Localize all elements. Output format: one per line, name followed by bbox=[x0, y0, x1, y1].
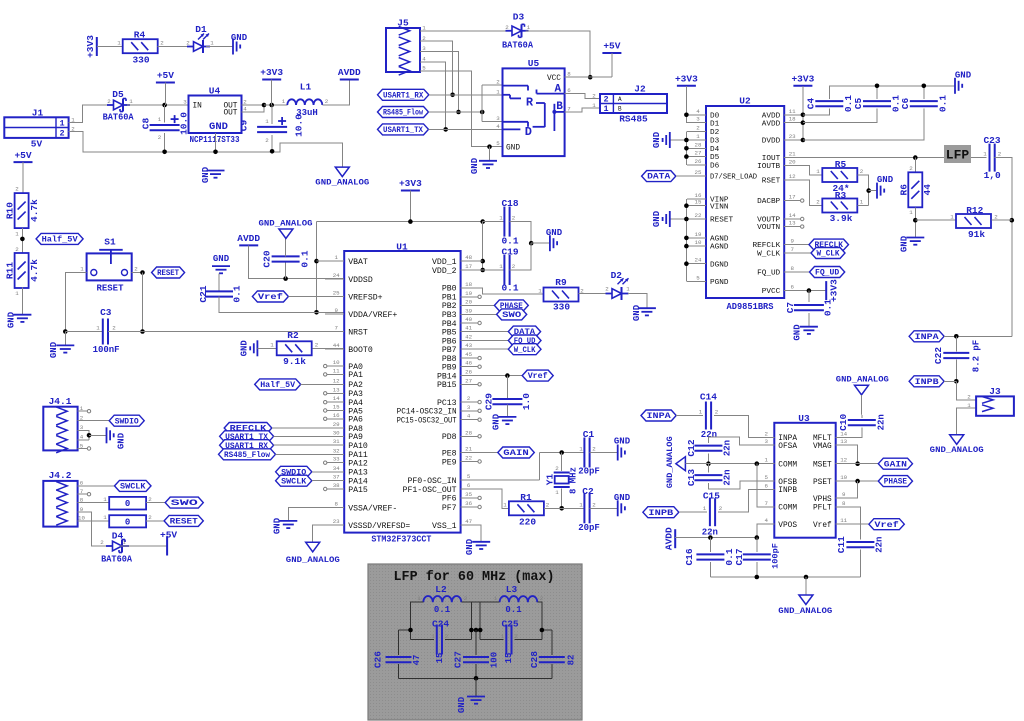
svg-text:1: 1 bbox=[499, 214, 503, 221]
svg-text:GND: GND bbox=[201, 166, 211, 183]
svg-text:C11: C11 bbox=[836, 536, 847, 553]
svg-text:3: 3 bbox=[183, 98, 187, 105]
svg-text:2: 2 bbox=[860, 168, 864, 175]
svg-text:C24: C24 bbox=[432, 618, 449, 629]
svg-text:3: 3 bbox=[765, 438, 769, 445]
svg-text:R2: R2 bbox=[287, 330, 299, 341]
svg-text:R12: R12 bbox=[966, 205, 983, 216]
svg-text:Vref: Vref bbox=[813, 522, 832, 530]
svg-text:PB0: PB0 bbox=[442, 285, 457, 294]
svg-text:PHASE: PHASE bbox=[884, 477, 907, 487]
svg-text:DVDD: DVDD bbox=[762, 138, 781, 146]
svg-text:2: 2 bbox=[243, 98, 247, 105]
svg-text:15: 15 bbox=[435, 653, 445, 664]
svg-text:43: 43 bbox=[465, 342, 472, 349]
svg-text:C1: C1 bbox=[583, 429, 595, 440]
svg-text:0.1: 0.1 bbox=[501, 283, 518, 294]
svg-text:2: 2 bbox=[816, 198, 820, 205]
svg-text:GND_ANALOG: GND_ANALOG bbox=[778, 606, 832, 616]
svg-text:22: 22 bbox=[695, 212, 702, 219]
svg-text:SWO: SWO bbox=[502, 310, 521, 320]
svg-text:16: 16 bbox=[333, 412, 340, 419]
svg-text:GND_ANALOG: GND_ANALOG bbox=[836, 375, 889, 385]
svg-text:20: 20 bbox=[789, 159, 796, 166]
svg-text:2: 2 bbox=[719, 505, 723, 512]
svg-text:PF1-OSC_OUT: PF1-OSC_OUT bbox=[403, 486, 457, 495]
svg-text:R5: R5 bbox=[835, 159, 847, 170]
svg-text:47: 47 bbox=[465, 518, 472, 525]
svg-text:C15: C15 bbox=[703, 490, 720, 501]
svg-text:25: 25 bbox=[695, 169, 702, 176]
svg-text:C6: C6 bbox=[900, 98, 911, 110]
svg-text:GND: GND bbox=[614, 493, 631, 503]
svg-text:31: 31 bbox=[333, 438, 340, 445]
svg-text:C10: C10 bbox=[838, 413, 849, 430]
svg-text:2: 2 bbox=[998, 150, 1002, 157]
svg-text:1: 1 bbox=[765, 457, 769, 464]
svg-text:1: 1 bbox=[15, 230, 19, 237]
svg-text:PGND: PGND bbox=[710, 279, 729, 287]
svg-text:USART1_TX: USART1_TX bbox=[383, 125, 424, 135]
svg-text:PSET: PSET bbox=[813, 479, 832, 487]
svg-text:47: 47 bbox=[412, 655, 422, 666]
svg-text:GND: GND bbox=[652, 131, 662, 148]
svg-text:37: 37 bbox=[333, 474, 340, 481]
svg-text:5: 5 bbox=[696, 274, 700, 281]
svg-text:PA2: PA2 bbox=[348, 381, 363, 390]
svg-text:PA15: PA15 bbox=[348, 486, 368, 495]
svg-text:GAIN: GAIN bbox=[884, 459, 907, 469]
svg-text:20pF: 20pF bbox=[578, 523, 600, 533]
svg-text:D1: D1 bbox=[195, 24, 207, 35]
svg-text:1: 1 bbox=[592, 102, 596, 109]
svg-text:9: 9 bbox=[842, 491, 846, 498]
svg-text:6: 6 bbox=[567, 87, 571, 94]
svg-text:GND: GND bbox=[49, 341, 59, 358]
svg-text:VSSA/VREF-: VSSA/VREF- bbox=[348, 503, 397, 513]
svg-text:RS485: RS485 bbox=[619, 114, 648, 125]
svg-text:+5V: +5V bbox=[603, 41, 620, 52]
svg-text:1: 1 bbox=[527, 24, 531, 31]
svg-text:7: 7 bbox=[765, 500, 769, 507]
svg-text:C20: C20 bbox=[262, 250, 273, 267]
svg-text:2: 2 bbox=[15, 185, 19, 192]
svg-text:AVDD: AVDD bbox=[762, 112, 781, 120]
svg-text:2: 2 bbox=[325, 98, 329, 105]
svg-text:1: 1 bbox=[117, 39, 121, 46]
svg-text:VSS_1: VSS_1 bbox=[432, 522, 457, 531]
svg-text:1: 1 bbox=[538, 287, 542, 294]
svg-text:1,0: 1,0 bbox=[984, 170, 1001, 181]
svg-text:11: 11 bbox=[840, 517, 847, 524]
svg-text:22n: 22n bbox=[875, 537, 885, 553]
svg-text:5: 5 bbox=[496, 140, 500, 147]
svg-text:9.1k: 9.1k bbox=[283, 356, 306, 367]
svg-text:6: 6 bbox=[467, 482, 471, 489]
svg-text:2: 2 bbox=[514, 633, 518, 640]
svg-text:A: A bbox=[618, 96, 622, 103]
svg-text:Vref: Vref bbox=[258, 292, 283, 302]
svg-text:2: 2 bbox=[148, 514, 152, 521]
svg-text:GND: GND bbox=[793, 324, 803, 341]
svg-text:C16: C16 bbox=[684, 548, 695, 565]
svg-text:GND: GND bbox=[116, 432, 126, 449]
svg-text:40: 40 bbox=[465, 316, 472, 323]
svg-text:U2: U2 bbox=[739, 96, 751, 107]
svg-text:21: 21 bbox=[789, 151, 796, 158]
svg-text:C5: C5 bbox=[853, 98, 864, 110]
svg-text:15: 15 bbox=[695, 199, 702, 206]
svg-text:C13: C13 bbox=[686, 469, 697, 486]
svg-text:13: 13 bbox=[840, 438, 847, 445]
svg-text:35: 35 bbox=[465, 491, 472, 498]
svg-text:2: 2 bbox=[445, 633, 449, 640]
svg-text:C3: C3 bbox=[100, 307, 112, 318]
svg-text:82: 82 bbox=[566, 655, 576, 666]
svg-text:PE9: PE9 bbox=[442, 458, 457, 467]
svg-text:DGND: DGND bbox=[710, 261, 729, 269]
svg-text:2: 2 bbox=[186, 39, 190, 46]
svg-text:NCP1117ST33: NCP1117ST33 bbox=[190, 135, 240, 145]
svg-text:+5V: +5V bbox=[160, 530, 177, 541]
svg-text:D: D bbox=[525, 125, 532, 139]
svg-text:26: 26 bbox=[695, 158, 702, 165]
svg-text:PFLT: PFLT bbox=[813, 505, 832, 513]
svg-text:1: 1 bbox=[96, 324, 100, 331]
svg-text:4.7k: 4.7k bbox=[29, 259, 40, 282]
svg-text:INPA: INPA bbox=[915, 332, 940, 342]
svg-text:VREFSD+: VREFSD+ bbox=[348, 293, 382, 302]
svg-text:BOOT0: BOOT0 bbox=[348, 346, 373, 355]
svg-text:COMM: COMM bbox=[778, 505, 797, 513]
svg-text:28: 28 bbox=[695, 141, 702, 148]
svg-text:Y1: Y1 bbox=[545, 474, 556, 486]
svg-text:1: 1 bbox=[282, 98, 286, 105]
svg-text:PB5: PB5 bbox=[442, 328, 457, 337]
svg-text:Vref: Vref bbox=[874, 520, 898, 530]
svg-text:18: 18 bbox=[789, 116, 796, 123]
svg-text:GND: GND bbox=[465, 538, 475, 555]
svg-text:GAIN: GAIN bbox=[503, 448, 529, 458]
svg-text:IOUT: IOUT bbox=[762, 155, 781, 163]
svg-text:VDDA/VREF+: VDDA/VREF+ bbox=[348, 310, 397, 320]
svg-text:C19: C19 bbox=[501, 247, 518, 258]
svg-text:2: 2 bbox=[605, 285, 609, 292]
svg-text:2: 2 bbox=[112, 324, 116, 331]
svg-text:GND: GND bbox=[506, 145, 520, 153]
svg-text:7: 7 bbox=[334, 325, 338, 332]
svg-text:J4.1: J4.1 bbox=[49, 396, 72, 407]
svg-text:10: 10 bbox=[695, 239, 702, 246]
svg-text:PB15: PB15 bbox=[437, 381, 457, 390]
svg-text:D7/SER_LOAD: D7/SER_LOAD bbox=[710, 174, 757, 182]
svg-text:18: 18 bbox=[465, 281, 472, 288]
svg-text:33: 33 bbox=[333, 456, 340, 463]
svg-text:+3V3: +3V3 bbox=[675, 74, 698, 85]
svg-text:REFCLK: REFCLK bbox=[753, 242, 781, 250]
svg-text:8: 8 bbox=[334, 501, 338, 508]
svg-text:W_CLK: W_CLK bbox=[514, 345, 536, 355]
svg-text:J4.2: J4.2 bbox=[49, 470, 72, 481]
svg-text:12: 12 bbox=[333, 377, 340, 384]
svg-text:7: 7 bbox=[567, 105, 571, 112]
svg-text:DATA: DATA bbox=[647, 172, 671, 182]
svg-text:OUT: OUT bbox=[223, 110, 237, 118]
svg-text:AVDD: AVDD bbox=[237, 233, 260, 244]
svg-text:41: 41 bbox=[465, 325, 472, 332]
svg-text:AGND: AGND bbox=[710, 244, 729, 252]
svg-text:3: 3 bbox=[696, 116, 700, 123]
svg-text:9: 9 bbox=[790, 238, 794, 245]
svg-text:C25: C25 bbox=[502, 618, 519, 629]
svg-text:6: 6 bbox=[790, 284, 794, 291]
svg-text:1: 1 bbox=[103, 514, 107, 521]
svg-text:26: 26 bbox=[465, 369, 472, 376]
svg-text:2: 2 bbox=[592, 92, 596, 99]
svg-text:COMM: COMM bbox=[778, 461, 797, 469]
svg-text:36: 36 bbox=[465, 500, 472, 507]
svg-text:14: 14 bbox=[333, 395, 340, 402]
svg-text:R3: R3 bbox=[835, 190, 847, 201]
svg-text:1.0: 1.0 bbox=[521, 393, 532, 410]
svg-text:10: 10 bbox=[333, 359, 340, 366]
svg-text:D3: D3 bbox=[513, 12, 525, 23]
svg-text:2: 2 bbox=[696, 124, 700, 131]
svg-text:VPOS: VPOS bbox=[778, 522, 797, 530]
svg-text:0.1: 0.1 bbox=[505, 605, 522, 615]
svg-text:C9: C9 bbox=[239, 120, 250, 132]
svg-text:22n: 22n bbox=[876, 414, 886, 430]
svg-text:5: 5 bbox=[765, 474, 769, 481]
svg-text:GND_ANALOG: GND_ANALOG bbox=[930, 445, 984, 455]
svg-text:AGND: AGND bbox=[710, 236, 729, 244]
svg-text:PB14: PB14 bbox=[437, 372, 457, 381]
svg-text:INPB: INPB bbox=[915, 377, 939, 387]
svg-text:3.9k: 3.9k bbox=[830, 213, 853, 224]
svg-text:PD8: PD8 bbox=[442, 433, 457, 442]
svg-text:PF7: PF7 bbox=[442, 504, 457, 513]
svg-text:+3V3: +3V3 bbox=[791, 74, 814, 85]
svg-text:MSET: MSET bbox=[813, 461, 832, 469]
svg-text:19: 19 bbox=[465, 290, 472, 297]
svg-text:VMAG: VMAG bbox=[813, 443, 832, 451]
svg-text:Half_5V: Half_5V bbox=[260, 380, 296, 390]
svg-text:22n: 22n bbox=[723, 469, 733, 485]
svg-text:24: 24 bbox=[695, 257, 702, 264]
svg-text:7: 7 bbox=[790, 246, 794, 253]
svg-text:4: 4 bbox=[243, 105, 247, 112]
svg-text:GND_ANALOG: GND_ANALOG bbox=[286, 555, 340, 565]
svg-text:2: 2 bbox=[765, 430, 769, 437]
svg-text:GND: GND bbox=[7, 311, 17, 328]
svg-text:C7: C7 bbox=[785, 302, 796, 314]
svg-text:R9: R9 bbox=[555, 277, 567, 288]
svg-text:PB7: PB7 bbox=[442, 346, 457, 355]
svg-text:4: 4 bbox=[496, 123, 500, 130]
svg-text:6: 6 bbox=[765, 482, 769, 489]
svg-text:PA12: PA12 bbox=[348, 459, 368, 468]
svg-text:D5: D5 bbox=[710, 154, 720, 162]
svg-text:2: 2 bbox=[540, 595, 544, 602]
svg-text:GND: GND bbox=[492, 413, 502, 430]
svg-text:25: 25 bbox=[333, 289, 340, 296]
svg-text:11: 11 bbox=[333, 367, 340, 374]
svg-text:GND: GND bbox=[955, 71, 972, 81]
svg-text:STM32F373CCT: STM32F373CCT bbox=[371, 534, 431, 545]
svg-text:1: 1 bbox=[417, 595, 421, 602]
svg-text:RESET: RESET bbox=[157, 268, 179, 278]
svg-text:330: 330 bbox=[553, 302, 570, 313]
svg-text:J5: J5 bbox=[397, 18, 409, 29]
svg-text:AVDD: AVDD bbox=[338, 67, 361, 78]
svg-text:PF6: PF6 bbox=[442, 495, 457, 504]
svg-text:GND: GND bbox=[632, 304, 642, 321]
svg-text:15: 15 bbox=[333, 403, 340, 410]
svg-text:1: 1 bbox=[503, 501, 507, 508]
svg-text:2: 2 bbox=[512, 263, 516, 270]
svg-text:10: 10 bbox=[840, 474, 847, 481]
svg-text:9: 9 bbox=[334, 307, 338, 314]
svg-text:1: 1 bbox=[158, 116, 162, 123]
svg-text:3: 3 bbox=[496, 115, 500, 122]
svg-text:2: 2 bbox=[265, 137, 269, 144]
svg-text:32: 32 bbox=[333, 447, 340, 454]
svg-text:AVDD: AVDD bbox=[762, 120, 781, 128]
svg-text:2: 2 bbox=[994, 213, 998, 220]
svg-text:PC15-OSC32_OUT: PC15-OSC32_OUT bbox=[397, 416, 457, 425]
svg-text:+5V: +5V bbox=[14, 150, 31, 161]
svg-text:U5: U5 bbox=[528, 58, 540, 69]
svg-text:28: 28 bbox=[465, 429, 472, 436]
svg-text:PB2: PB2 bbox=[442, 302, 457, 311]
svg-text:GND: GND bbox=[209, 121, 228, 133]
svg-text:8.2 pF: 8.2 pF bbox=[972, 340, 982, 372]
svg-text:DACBP: DACBP bbox=[757, 198, 780, 206]
svg-text:4: 4 bbox=[765, 517, 769, 524]
svg-text:GND: GND bbox=[652, 210, 662, 227]
svg-text:GND: GND bbox=[470, 157, 480, 174]
svg-text:2: 2 bbox=[715, 408, 719, 415]
svg-text:+3V3: +3V3 bbox=[85, 35, 96, 58]
svg-text:0.1: 0.1 bbox=[232, 285, 243, 302]
svg-text:14: 14 bbox=[789, 212, 796, 219]
svg-text:B: B bbox=[618, 106, 622, 113]
svg-text:L2: L2 bbox=[435, 584, 447, 595]
svg-text:4: 4 bbox=[467, 413, 471, 420]
svg-text:GND: GND bbox=[213, 254, 230, 264]
svg-text:PA3: PA3 bbox=[348, 390, 363, 399]
svg-text:12: 12 bbox=[840, 457, 847, 464]
svg-text:C26: C26 bbox=[372, 651, 383, 668]
svg-text:4: 4 bbox=[696, 108, 700, 115]
svg-text:0.1: 0.1 bbox=[823, 299, 834, 316]
svg-text:5: 5 bbox=[467, 473, 471, 480]
svg-text:1: 1 bbox=[816, 168, 820, 175]
svg-text:1: 1 bbox=[218, 137, 222, 144]
svg-text:GND: GND bbox=[614, 436, 631, 446]
svg-text:1: 1 bbox=[699, 408, 703, 415]
svg-text:INPA: INPA bbox=[647, 411, 672, 421]
svg-text:BAT60A: BAT60A bbox=[101, 555, 133, 565]
svg-text:1: 1 bbox=[129, 98, 133, 105]
svg-text:GND: GND bbox=[877, 175, 894, 185]
svg-text:PVCC: PVCC bbox=[762, 288, 781, 296]
svg-text:2: 2 bbox=[107, 98, 111, 105]
svg-text:VCC: VCC bbox=[547, 75, 561, 83]
svg-text:1: 1 bbox=[59, 118, 64, 128]
svg-text:D4: D4 bbox=[710, 146, 720, 154]
svg-text:U4: U4 bbox=[209, 86, 221, 97]
svg-text:38: 38 bbox=[333, 482, 340, 489]
svg-text:1: 1 bbox=[334, 254, 338, 261]
svg-text:27: 27 bbox=[695, 150, 702, 157]
svg-text:GND: GND bbox=[240, 340, 250, 357]
svg-text:D3: D3 bbox=[710, 138, 720, 146]
svg-text:PF0-OSC_IN: PF0-OSC_IN bbox=[407, 477, 456, 486]
svg-text:W_CLK: W_CLK bbox=[757, 251, 780, 259]
svg-text:44: 44 bbox=[333, 342, 340, 349]
svg-text:RESET: RESET bbox=[170, 517, 198, 527]
svg-text:48: 48 bbox=[465, 254, 472, 261]
svg-text:FQ_UD: FQ_UD bbox=[757, 270, 780, 278]
svg-text:13: 13 bbox=[789, 220, 796, 227]
svg-text:GND_ANALOG: GND_ANALOG bbox=[315, 177, 369, 187]
svg-text:PC13: PC13 bbox=[437, 399, 457, 408]
svg-text:IOUTB: IOUTB bbox=[757, 163, 780, 171]
svg-text:C8: C8 bbox=[141, 118, 152, 130]
svg-text:RESET: RESET bbox=[96, 283, 124, 293]
svg-text:PE8: PE8 bbox=[442, 449, 457, 458]
svg-text:VDD_1: VDD_1 bbox=[432, 258, 457, 267]
svg-text:3: 3 bbox=[467, 404, 471, 411]
svg-text:24: 24 bbox=[333, 272, 340, 279]
svg-text:29: 29 bbox=[333, 421, 340, 428]
svg-text:+5V: +5V bbox=[157, 70, 174, 81]
svg-text:1: 1 bbox=[501, 633, 505, 640]
svg-text:IN: IN bbox=[193, 103, 203, 111]
svg-text:22: 22 bbox=[465, 454, 472, 461]
svg-text:USART1_RX: USART1_RX bbox=[383, 90, 424, 100]
svg-text:L1: L1 bbox=[300, 82, 312, 93]
svg-text:13: 13 bbox=[333, 386, 340, 393]
svg-text:20: 20 bbox=[465, 298, 472, 305]
svg-text:1: 1 bbox=[122, 539, 126, 546]
svg-text:J1: J1 bbox=[32, 108, 44, 119]
svg-text:20pF: 20pF bbox=[578, 467, 600, 477]
svg-text:2: 2 bbox=[546, 501, 550, 508]
svg-text:LFP: LFP bbox=[946, 148, 970, 163]
svg-text:23: 23 bbox=[333, 518, 340, 525]
svg-text:+3V3: +3V3 bbox=[260, 67, 283, 78]
svg-text:330: 330 bbox=[132, 55, 149, 66]
svg-text:0.1: 0.1 bbox=[938, 95, 949, 112]
svg-text:INPB: INPB bbox=[648, 508, 673, 518]
svg-text:91k: 91k bbox=[968, 229, 985, 240]
svg-text:2: 2 bbox=[512, 214, 516, 221]
svg-text:R4: R4 bbox=[134, 29, 146, 40]
svg-text:PB6: PB6 bbox=[442, 337, 457, 346]
svg-text:220: 220 bbox=[519, 517, 536, 528]
svg-text:C2: C2 bbox=[582, 486, 594, 497]
svg-text:Vref: Vref bbox=[528, 371, 548, 381]
svg-text:RESET: RESET bbox=[710, 217, 733, 225]
svg-text:VPHS: VPHS bbox=[813, 496, 832, 504]
svg-text:2: 2 bbox=[496, 79, 500, 86]
svg-text:8: 8 bbox=[567, 71, 571, 78]
svg-text:2: 2 bbox=[909, 165, 913, 172]
svg-text:C12: C12 bbox=[686, 439, 697, 456]
svg-text:R10: R10 bbox=[5, 202, 16, 219]
